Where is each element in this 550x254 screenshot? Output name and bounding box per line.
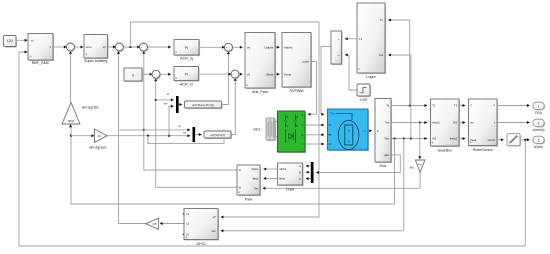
svg-text:Ualpha: Ualpha (264, 46, 273, 50)
svg-text:wm-&gt;Nr1: wm-&gt;Nr1 (82, 106, 99, 110)
svg-text:theta: theta (470, 138, 476, 142)
svg-text:T1: T1 (359, 37, 363, 41)
svg-text:1/5: 1/5 (152, 222, 156, 226)
svg-text:v(mm/s): v(mm/s) (533, 128, 545, 132)
svg-text:-: - (70, 48, 71, 51)
svg-text:ACR_iq: ACR_iq (180, 57, 193, 61)
svg-text:Vd: Vd (247, 72, 251, 76)
svg-text:Beta: Beta (279, 177, 285, 181)
svg-text:SVPWM: SVPWM (290, 89, 304, 93)
svg-text:Alpha: Alpha (279, 167, 286, 171)
svg-text:RollerScrew: RollerScrew (473, 148, 493, 152)
svg-text:3: 3 (538, 138, 540, 142)
svg-text:wm: wm (212, 230, 217, 233)
svg-text:error: error (86, 45, 92, 49)
svg-text:pulse: pulse (303, 60, 310, 64)
svg-text:+: + (338, 37, 340, 41)
svg-text:c2: c2 (186, 221, 189, 225)
svg-text:Lugre: Lugre (366, 75, 375, 79)
svg-text:theta1: theta1 (432, 121, 440, 125)
svg-text:Mux: Mux (380, 164, 387, 168)
svg-text:ACR_id: ACR_id (180, 83, 193, 87)
svg-text:30/pi: 30/pi (68, 119, 75, 123)
svg-text:Wm: Wm (385, 137, 391, 141)
svg-text:B: B (302, 133, 304, 137)
svg-text:Alpha: Alpha (251, 167, 258, 171)
svg-text:Load: Load (360, 98, 368, 102)
svg-text:Te: Te (386, 104, 389, 108)
svg-text:theta2: theta2 (450, 137, 458, 141)
svg-text:F(N): F(N) (535, 111, 542, 115)
svg-text:The: The (385, 121, 390, 125)
svg-text:-: - (228, 49, 229, 52)
svg-text:Pn: Pn (418, 162, 422, 166)
svg-text:Anti_Park: Anti_Park (252, 90, 268, 94)
svg-text:The: The (254, 186, 259, 190)
svg-text:s(mm): s(mm) (534, 145, 543, 149)
svg-text:Beta: Beta (253, 177, 259, 181)
svg-text:2: 2 (538, 121, 540, 125)
svg-text:Valpha: Valpha (284, 46, 293, 50)
svg-text:N: N (348, 129, 350, 133)
svg-text:xd: xd (31, 39, 34, 43)
svg-text:A: A (302, 123, 304, 127)
svg-text:iabc: iabc (384, 153, 390, 157)
svg-text:PI: PI (185, 46, 188, 50)
svg-text:Pn: Pn (98, 134, 102, 138)
svg-text:wm-&gt;we1: wm-&gt;we1 (89, 146, 107, 150)
svg-text:we: we (183, 131, 187, 135)
svg-text:T2: T2 (454, 104, 458, 108)
svg-text:u(2)*(flux+Ld*u(1)): u(2)*(flux+Ld*u(1)) (192, 103, 214, 107)
svg-text:W1: W1 (432, 137, 437, 141)
svg-text:wm: wm (379, 53, 384, 57)
svg-text:Vdc1: Vdc1 (253, 128, 261, 132)
svg-text:we: we (164, 101, 168, 105)
svg-text:A: A (299, 164, 301, 168)
svg-text:D: D (239, 168, 241, 172)
svg-text:C: C (302, 142, 304, 146)
svg-text:m: m (363, 130, 365, 133)
svg-text:Vq: Vq (247, 46, 251, 50)
svg-text:Clark: Clark (286, 187, 295, 191)
svg-text:Pn: Pn (410, 166, 414, 170)
svg-text:-: - (143, 48, 144, 51)
svg-text:c1: c1 (186, 212, 189, 216)
svg-text:B: B (299, 171, 301, 175)
svg-text:s(mm): s(mm) (488, 138, 496, 142)
svg-text:GPIO: GPIO (196, 242, 205, 246)
svg-text:T1: T1 (432, 104, 436, 108)
svg-text:0: 0 (132, 73, 134, 77)
svg-text:-: - (119, 48, 120, 51)
svg-text:GearBox: GearBox (437, 149, 452, 153)
svg-text:W2: W2 (453, 121, 458, 125)
svg-text:Ubeta: Ubeta (266, 72, 274, 76)
svg-text:Park: Park (245, 197, 253, 201)
svg-text:Super-twisting: Super-twisting (84, 59, 107, 63)
svg-text:PI: PI (185, 72, 188, 76)
svg-text:TL: TL (380, 18, 384, 22)
svg-text:-: - (235, 75, 236, 78)
svg-text:Vbeta: Vbeta (284, 72, 292, 76)
svg-text:RBF_SMC: RBF_SMC (32, 61, 50, 65)
svg-text:120: 120 (7, 39, 13, 43)
svg-text:iq*: iq* (213, 215, 216, 219)
svg-text:+: + (338, 53, 340, 57)
svg-text:1: 1 (538, 104, 540, 108)
svg-text:Tm: Tm (331, 112, 336, 116)
svg-text:S: S (348, 140, 350, 144)
svg-text:C: C (299, 177, 301, 181)
svg-text:Q: Q (239, 185, 241, 189)
svg-text:-: - (156, 76, 157, 79)
svg-text:u(2)*Lq*u(1): u(2)*Lq*u(1) (210, 133, 225, 137)
